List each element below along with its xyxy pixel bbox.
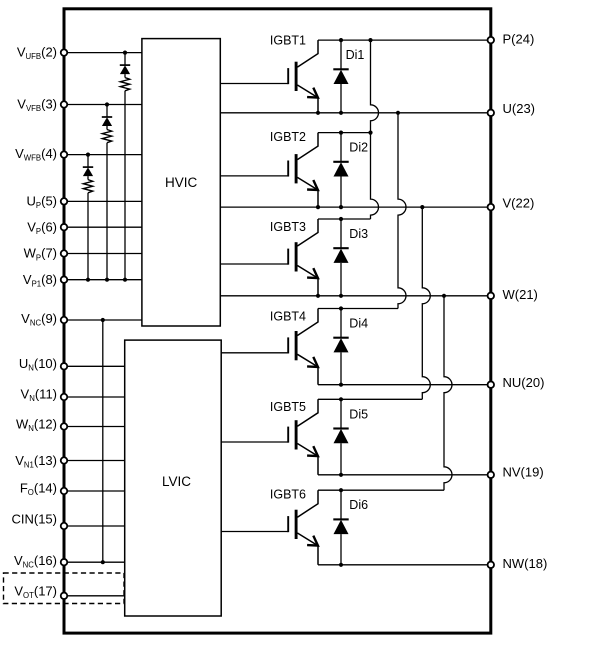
pin VVFB(3): [17, 97, 142, 114]
wire gate IGBT2: [220, 175, 288, 177]
wire IGBT6 collector: [318, 489, 444, 491]
wire IGBT5 collector: [318, 398, 422, 400]
svg-text:Di3: Di3: [349, 227, 368, 241]
transistor IGBT4: [270, 309, 318, 385]
pin VNC(16): [14, 553, 125, 570]
svg-text:LVIC: LVIC: [162, 474, 191, 489]
pin W(21): [488, 287, 538, 302]
svg-text:IGBT3: IGBT3: [270, 220, 306, 234]
pin P(24): [488, 32, 535, 47]
svg-text:NU(20): NU(20): [503, 375, 545, 390]
svg-text:W(21): W(21): [503, 287, 538, 302]
svg-text:VNC(16): VNC(16): [14, 553, 57, 570]
bootstrap resistor RVWFB: [83, 180, 92, 280]
pin VN1(13): [15, 453, 124, 470]
wire IGBT4 collector: [318, 308, 398, 310]
pin NW(18): [488, 556, 548, 571]
wire gate IGBT4: [221, 352, 288, 354]
wire gate IGBT5: [221, 441, 288, 443]
pin UP(5): [27, 194, 142, 211]
svg-text:Di6: Di6: [349, 498, 368, 512]
svg-text:IGBT2: IGBT2: [270, 130, 306, 144]
pin V(22): [488, 196, 535, 211]
diode Di6: [333, 490, 368, 565]
wire NV rail: [318, 474, 491, 476]
bootstrap diode DVWFB: [83, 155, 93, 180]
pin VNC(9): [21, 311, 142, 328]
wire U to IGBT4 collector (hops V,W): [398, 113, 406, 309]
pin U(23): [488, 101, 535, 116]
bootstrap diode DVUFB: [120, 53, 130, 78]
svg-text:UP(5): UP(5): [27, 194, 57, 211]
pin VOT(17): [14, 584, 124, 601]
svg-text:Di1: Di1: [346, 48, 365, 62]
svg-text:Di2: Di2: [349, 141, 368, 155]
svg-text:Di4: Di4: [349, 317, 368, 331]
svg-text:WN(12): WN(12): [16, 416, 57, 433]
wire NU rail: [318, 384, 491, 386]
wire W to IGBT6 collector (hops NU,NV): [444, 296, 452, 490]
wire gate IGBT1: [220, 83, 288, 85]
bootstrap diode DVVFB: [102, 105, 112, 130]
svg-text:U(23): U(23): [503, 101, 536, 116]
wire P chain to IGBT3 collector (hops U,V): [371, 40, 379, 219]
diode Di5: [333, 399, 368, 475]
svg-text:Di5: Di5: [349, 407, 368, 421]
wire VNC(9) to VNC(16): [101, 318, 105, 564]
svg-text:WP(7): WP(7): [24, 246, 57, 263]
pin NU(20): [488, 375, 545, 390]
diode Di2: [333, 133, 368, 208]
transistor IGBT3: [270, 219, 318, 296]
pin CIN(15): [11, 511, 124, 529]
node VWFB junction: [86, 153, 90, 282]
wire W rail: [220, 295, 491, 297]
bootstrap resistor RVUFB: [120, 78, 129, 280]
svg-text:IGBT6: IGBT6: [270, 488, 306, 502]
svg-text:VP(6): VP(6): [27, 220, 57, 237]
bootstrap resistor RVVFB: [102, 130, 111, 280]
svg-text:NW(18): NW(18): [503, 556, 548, 571]
transistor IGBT1: [270, 34, 318, 113]
wire U rail: [220, 112, 491, 114]
module outline box: [64, 9, 491, 633]
pin FO(14): [20, 480, 125, 497]
wire gate IGBT6: [221, 531, 288, 533]
svg-text:IGBT4: IGBT4: [270, 310, 306, 324]
pin VUFB(2): [17, 44, 142, 61]
diode Di4: [333, 309, 368, 385]
svg-text:FO(14): FO(14): [20, 480, 57, 497]
pin VN(11): [21, 387, 125, 404]
pin UN(10): [19, 356, 125, 373]
transistor IGBT6: [270, 488, 318, 565]
wire V rail: [220, 206, 491, 208]
svg-text:CIN(15): CIN(15): [11, 511, 57, 526]
svg-text:VN1(13): VN1(13): [15, 453, 57, 470]
wire V to IGBT5 collector (hops W,NU): [422, 207, 430, 399]
junction nodes: [316, 38, 446, 567]
wire NW rail: [318, 564, 491, 566]
transistor IGBT5: [270, 399, 318, 475]
wire IGBT2 collector: [318, 132, 371, 134]
transistor IGBT2: [270, 130, 318, 207]
svg-text:P(24): P(24): [503, 32, 535, 47]
wire IGBT3 collector: [318, 218, 371, 220]
dashed option box around VOT(17): [4, 573, 125, 604]
svg-text:IGBT5: IGBT5: [270, 400, 306, 414]
wire P rail: [318, 39, 491, 41]
pin WP(7): [24, 246, 142, 263]
pin NV(19): [488, 464, 544, 479]
node VUFB junction: [123, 51, 127, 282]
svg-text:UN(10): UN(10): [19, 356, 57, 373]
op-amp/driver HVIC: [142, 39, 220, 326]
diode Di1: [333, 40, 364, 113]
svg-text:IGBT1: IGBT1: [270, 34, 306, 48]
svg-text:HVIC: HVIC: [165, 175, 198, 190]
driver LVIC: [125, 340, 222, 616]
svg-text:VN(11): VN(11): [21, 387, 57, 404]
pin VWFB(4): [15, 146, 142, 163]
node VVFB junction: [105, 102, 109, 281]
diode Di3: [333, 219, 368, 296]
svg-text:V(22): V(22): [503, 196, 535, 211]
pin VP1(8): [23, 272, 142, 289]
pin WN(12): [16, 416, 125, 433]
svg-text:NV(19): NV(19): [503, 464, 544, 479]
wire gate IGBT3: [220, 263, 288, 265]
svg-text:VOT(17): VOT(17): [14, 584, 57, 601]
pin VP(6): [27, 220, 142, 237]
